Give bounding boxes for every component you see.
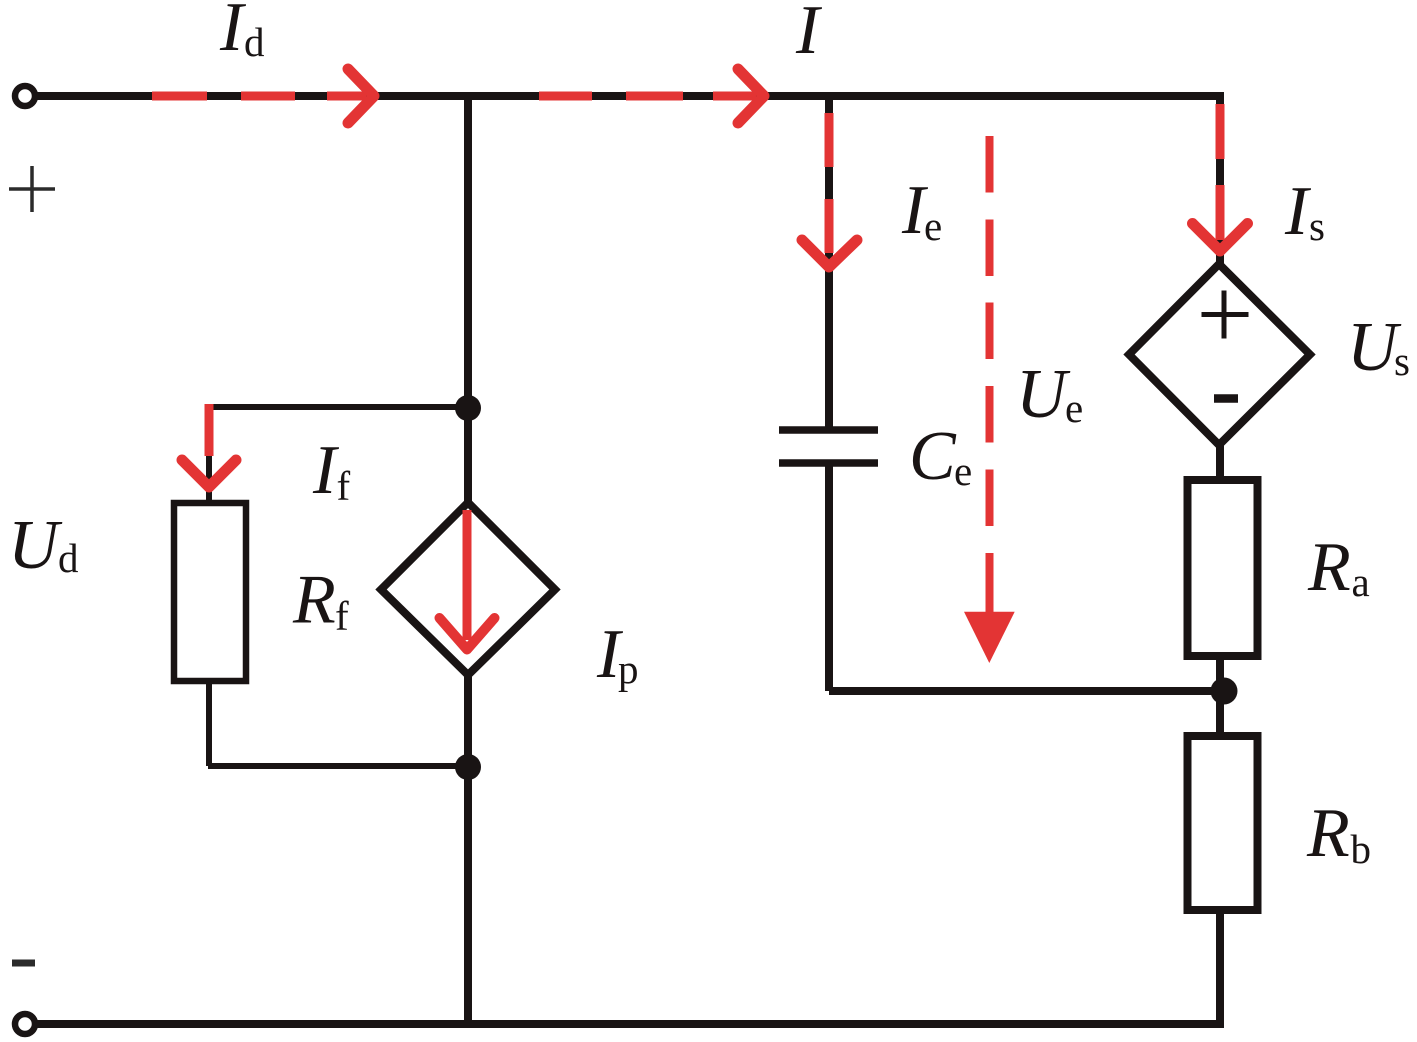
wire Rf top horizontal — [208, 404, 468, 410]
svg-text:a: a — [1352, 559, 1370, 605]
minus sign port — [12, 960, 35, 967]
svg-text:R: R — [1306, 795, 1350, 872]
svg-text:p: p — [618, 646, 639, 692]
capacitor Ce plates — [779, 430, 878, 463]
plus sign port — [9, 166, 55, 212]
node B dot — [1211, 678, 1238, 705]
current arrow I head — [738, 69, 764, 123]
svg-text:f: f — [337, 463, 351, 509]
wire middle horizontal to node B — [829, 687, 1224, 695]
wire Rb to bottom bus — [1216, 909, 1224, 1024]
minus sign inside Us — [1214, 394, 1238, 403]
svg-text:R: R — [1307, 529, 1351, 606]
svg-text:s: s — [1309, 203, 1325, 249]
current arrow Ip head — [440, 618, 495, 650]
wire right branch top — [1216, 92, 1224, 264]
dependent source Us diamond — [1129, 264, 1310, 445]
svg-text:U: U — [1016, 356, 1071, 433]
wire capacitor branch lower — [825, 463, 833, 691]
terminal bottom-left — [15, 1014, 35, 1034]
current arrow I dashes — [539, 69, 764, 123]
terminal top-left — [15, 86, 35, 106]
wire Ra to node B — [1216, 655, 1224, 737]
current arrow Id dashes — [152, 69, 374, 123]
current arrow Is dashes — [1193, 104, 1248, 251]
wire Rf bottom vertical — [206, 681, 212, 766]
current arrow If — [182, 404, 236, 487]
current arrow Ie dashes — [802, 113, 857, 267]
svg-text:b: b — [1351, 826, 1372, 872]
svg-text:d: d — [244, 19, 265, 65]
svg-text:R: R — [292, 562, 336, 639]
svg-text:e: e — [924, 203, 942, 249]
wire bottom bus — [35, 1020, 1224, 1028]
svg-text:s: s — [1394, 338, 1410, 384]
svg-text:f: f — [335, 593, 349, 639]
node A dot — [455, 395, 481, 421]
current arrow Ip — [440, 510, 495, 650]
svg-text:I: I — [795, 0, 823, 69]
plus sign inside Us — [1202, 291, 1249, 339]
svg-text:e: e — [1065, 385, 1083, 431]
resistor Rf — [174, 503, 246, 681]
svg-text:I: I — [1284, 173, 1312, 250]
wire Rf bottom horizontal — [208, 763, 468, 769]
voltage arrow Ue dashed line — [986, 136, 994, 616]
wire diamond Us to Ra — [1216, 444, 1224, 481]
voltage arrow Ue head — [964, 612, 1015, 663]
wire top bus — [35, 92, 1224, 100]
current arrow If head — [182, 460, 236, 487]
wire capacitor branch upper — [825, 96, 833, 430]
current arrow Id head — [348, 69, 374, 123]
current arrow Ie head — [802, 240, 857, 267]
svg-text:e: e — [954, 448, 972, 494]
current arrow Is head — [1193, 224, 1248, 252]
resistor Ra — [1188, 480, 1258, 656]
svg-text:U: U — [8, 507, 63, 584]
wire Rf top vertical — [206, 404, 212, 503]
wire center vertical upper — [464, 96, 472, 505]
wire center vertical lower — [464, 675, 472, 1024]
svg-text:I: I — [219, 0, 247, 66]
node C dot — [455, 754, 481, 780]
svg-text:C: C — [909, 418, 957, 495]
dependent source Ip diamond — [381, 503, 555, 676]
resistor Rb — [1188, 736, 1258, 910]
svg-text:d: d — [58, 535, 79, 581]
